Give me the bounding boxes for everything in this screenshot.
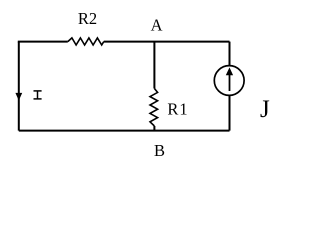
wire node A branch [153,42,155,89]
wire left side [18,42,20,131]
wire R1 bottom [153,126,155,131]
wire bottom [19,130,230,132]
wire top-left segment [19,42,68,43]
wire top-right segment [104,41,230,43]
current source arrowhead [226,67,233,75]
svg-text:R1: R1 [167,99,188,118]
svg-text:J: J [260,96,270,123]
wire right bottom [229,96,231,131]
label I [34,91,42,99]
svg-text:R2: R2 [78,9,97,28]
svg-text:B: B [154,141,165,160]
current source J circle [214,66,244,96]
current source arrow shaft [229,75,231,92]
svg-text:A: A [151,16,163,35]
resistor R1 [150,89,158,127]
wire right top [229,42,231,66]
resistor R2 [68,38,104,45]
current arrow I [15,93,22,101]
